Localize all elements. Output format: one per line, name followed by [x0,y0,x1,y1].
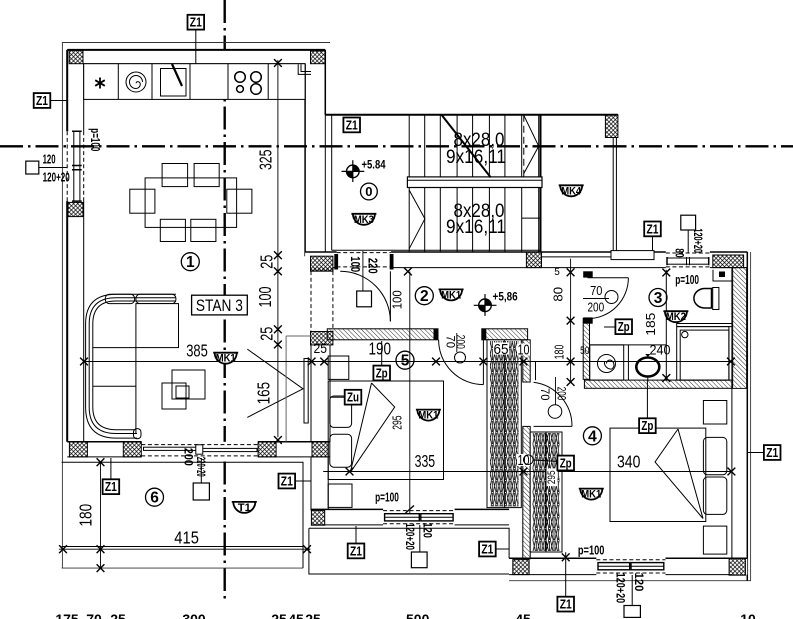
svg-text:Z1: Z1 [560,597,572,612]
svg-text:335: 335 [415,451,436,471]
svg-text:220: 220 [366,258,381,274]
svg-text:9x16,11: 9x16,11 [446,216,506,238]
svg-text:4: 4 [588,428,597,445]
svg-text:70: 70 [538,388,552,401]
svg-text:200: 200 [182,448,196,466]
svg-text:300: 300 [182,611,206,619]
svg-text:Zp: Zp [376,366,388,381]
svg-text:180: 180 [552,345,567,360]
svg-text:3: 3 [654,290,663,307]
svg-text:295: 295 [546,471,558,485]
svg-text:1: 1 [186,254,195,271]
svg-text:MK2: MK2 [666,311,686,323]
svg-text:180: 180 [75,504,95,527]
svg-text:Z1: Z1 [105,479,117,494]
svg-text:Z1: Z1 [647,221,659,236]
svg-text:200: 200 [453,335,467,349]
svg-text:+5.84: +5.84 [362,159,386,171]
svg-text:0: 0 [365,184,372,199]
svg-text:25: 25 [305,611,321,619]
svg-text:10: 10 [740,611,756,619]
svg-text:25: 25 [271,611,287,619]
svg-text:p=100: p=100 [375,491,399,505]
svg-text:Z1: Z1 [36,93,48,108]
svg-text:80: 80 [672,248,686,257]
svg-text:500: 500 [406,611,430,619]
svg-text:200: 200 [587,300,604,314]
svg-text:70: 70 [86,611,102,619]
svg-text:25: 25 [256,255,276,269]
svg-text:295: 295 [390,416,405,430]
svg-text:25: 25 [314,340,328,356]
svg-text:25: 25 [257,327,277,341]
svg-text:T1: T1 [238,502,251,514]
svg-text:100: 100 [348,256,363,272]
svg-text:Zu: Zu [347,390,359,405]
svg-text:MK3: MK3 [354,214,374,226]
svg-text:p=100: p=100 [675,273,699,287]
svg-text:65: 65 [494,341,509,358]
svg-text:340: 340 [617,452,641,472]
svg-text:Zp: Zp [560,456,572,471]
svg-text:80: 80 [551,287,566,302]
svg-text:Z1: Z1 [346,117,358,132]
svg-text:120: 120 [632,573,646,592]
svg-text:Z1: Z1 [350,543,362,558]
svg-text:MK4: MK4 [561,185,582,197]
svg-text:190: 190 [368,339,391,359]
svg-text:Z1: Z1 [281,474,293,489]
svg-text:120: 120 [43,152,56,167]
svg-text:325: 325 [255,150,275,171]
svg-text:415: 415 [174,528,199,548]
svg-text:2: 2 [420,288,429,305]
svg-text:185: 185 [643,313,658,336]
svg-text:Z1: Z1 [766,445,778,460]
svg-text:50: 50 [580,345,589,357]
svg-text:5: 5 [554,267,560,278]
svg-text:5: 5 [401,353,410,370]
svg-text:MK1: MK1 [216,353,236,365]
svg-text:120+20: 120+20 [403,523,417,550]
svg-text:100: 100 [389,290,404,309]
svg-text:Z1: Z1 [190,15,202,30]
svg-text:STAN 3: STAN 3 [196,296,243,315]
svg-text:120+20: 120+20 [614,573,628,604]
svg-text:200: 200 [555,387,569,401]
svg-text:MK1: MK1 [418,410,438,422]
svg-text:6: 6 [150,490,159,507]
svg-text:120+20: 120+20 [43,170,70,185]
svg-text:175: 175 [55,611,79,619]
svg-text:Z1: Z1 [481,542,493,557]
svg-text:9x16,11: 9x16,11 [446,146,506,168]
svg-text:10: 10 [518,342,530,359]
svg-text:+5,86: +5,86 [493,291,518,303]
svg-text:120: 120 [421,523,435,539]
svg-text:45: 45 [515,611,531,619]
svg-text:385: 385 [186,340,208,360]
svg-text:70: 70 [590,284,602,298]
svg-text:45: 45 [288,611,304,619]
svg-text:Zp: Zp [618,319,630,334]
svg-text:165: 165 [253,382,273,405]
svg-text:240: 240 [650,343,671,358]
svg-text:120+20: 120+20 [691,228,705,253]
svg-text:p=100: p=100 [88,128,102,151]
svg-text:p=100: p=100 [578,543,605,557]
svg-text:MK1: MK1 [441,289,461,301]
svg-text:100: 100 [255,286,275,307]
svg-text:25: 25 [110,611,126,619]
svg-text:MK1: MK1 [581,489,601,501]
svg-text:Zp: Zp [641,418,653,433]
